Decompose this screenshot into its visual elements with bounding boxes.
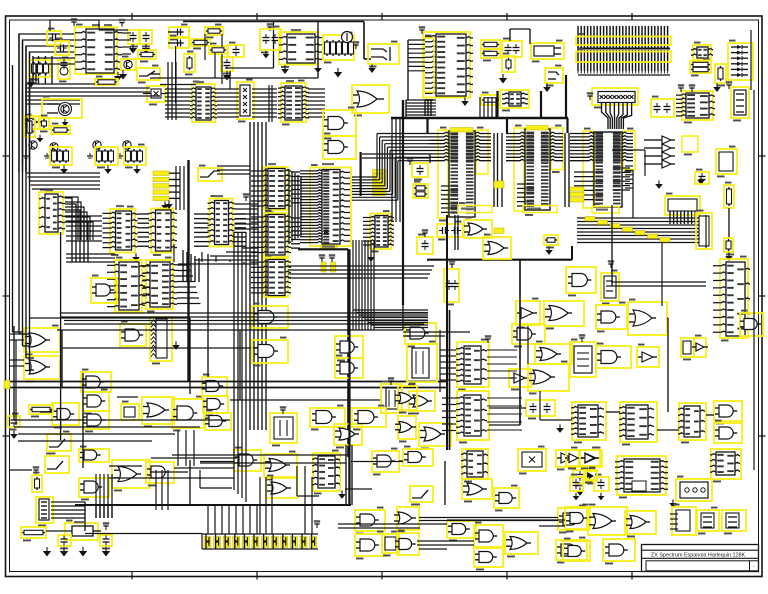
RC cluster under xtal: [323, 35, 354, 60]
capacitor C7: [228, 45, 244, 57]
U44 left feeds: [440, 349, 456, 351]
VCC U1 right: [121, 23, 123, 27]
gate U29C: [202, 377, 227, 396]
RAM B top label: [526, 126, 548, 131]
top-left extra wires: [99, 29, 128, 31]
transistor Q1 block: [121, 59, 136, 70]
caps B1: [695, 172, 709, 184]
gate U59B: [264, 454, 297, 477]
gnd bar Q3: [25, 153, 27, 156]
gate U51: [740, 313, 763, 336]
gate U34E: [409, 391, 435, 411]
resistor R4: [138, 50, 156, 59]
ROM C left pins group2: [574, 171, 594, 173]
PS2 connector J10: [676, 479, 712, 501]
bus lane right: [577, 217, 700, 219]
resistor network R20: [481, 40, 500, 49]
caps W: [570, 477, 583, 491]
gate links bottom center: [345, 488, 372, 490]
verticals x392-400: [391, 118, 393, 222]
bottom mid horizontals2: [338, 523, 447, 525]
comp DC12V: [502, 56, 515, 72]
connector J4: [731, 87, 749, 118]
diode W: [584, 470, 597, 480]
IC U9: [682, 91, 713, 120]
wire top bus: [168, 31, 183, 33]
yellow B1 out: [682, 136, 698, 152]
J6 fan pins: [669, 211, 671, 224]
wires under U6: [406, 99, 436, 101]
gnd bar Q5: [89, 153, 91, 156]
gate U27A: [81, 372, 111, 392]
IC U17 latch: [370, 214, 391, 250]
ground RP4: [175, 341, 177, 345]
caps inline C31: [526, 400, 555, 416]
gate U34C: [352, 408, 386, 427]
res pair R40: [413, 184, 428, 198]
bottom center risers: [259, 477, 261, 534]
gate U34B: [334, 424, 362, 445]
IC U2 voltage reg: [279, 32, 318, 65]
edge connector yellow band row2: [576, 52, 671, 63]
thick corner bus: [298, 248, 348, 250]
comp U25c: [601, 273, 619, 301]
thick divider: [75, 504, 351, 506]
res pair R22: [690, 61, 711, 73]
trunk x349: [348, 249, 350, 505]
IC U44 shift: [457, 342, 489, 387]
res inline R50: [29, 405, 53, 414]
capacitor C6 pair: [169, 27, 189, 37]
transistor Q3: [29, 141, 37, 149]
bus wires RAM row: [165, 88, 190, 90]
J8 wires: [51, 501, 85, 503]
right top area wires: [644, 150, 646, 176]
gate U69A: [558, 508, 587, 530]
switch DIP B: [45, 456, 69, 473]
bus trunk vertical mid: [268, 85, 270, 122]
bottom mid extra verticals: [304, 466, 306, 534]
IC U4 RAM: [281, 83, 306, 122]
cap C41: [100, 535, 112, 546]
xtal module X1: [570, 342, 596, 377]
gate U47: [628, 302, 667, 335]
ground comp: [548, 246, 550, 250]
IC U45 shift: [457, 391, 489, 440]
VCC U1 left: [73, 22, 75, 26]
verticals risers mid-bottom: [177, 430, 179, 466]
VCC tag mid RAM: [494, 181, 504, 188]
RAM B bottom label: [523, 206, 557, 213]
comp small right: [544, 235, 558, 245]
gate U34D: [419, 423, 451, 446]
buffer V2: [580, 450, 602, 467]
resistor R32: [51, 126, 70, 134]
right column verticals: [753, 90, 755, 470]
gate U67B: [474, 525, 503, 547]
double bus horizontal: [10, 381, 447, 383]
connector J11: [672, 507, 696, 535]
VCC C20: [409, 161, 411, 165]
buffer V1: [556, 450, 579, 467]
vert bundle x175-205: [175, 166, 177, 210]
IC U12: [151, 209, 174, 253]
ground C4: [132, 44, 134, 48]
wires DRAM to gates: [454, 215, 456, 250]
gnd Q2: [64, 119, 66, 122]
gate U62B: [355, 534, 385, 556]
bus jumpers: [585, 217, 595, 222]
long wires left field: [62, 347, 265, 349]
jack J3: [545, 68, 563, 83]
IC U52: [572, 402, 606, 440]
long vert x60: [60, 232, 62, 440]
transistor Q5: [93, 141, 101, 149]
wire keyboard risers: [95, 505, 97, 518]
gate U74B: [603, 539, 635, 561]
VCC U6: [421, 30, 423, 34]
VCC C20b: [424, 233, 426, 237]
resistor pack R1-R3: [29, 60, 50, 77]
comp U62C: [382, 534, 399, 553]
U45 left feeds: [442, 397, 456, 399]
border zone ticks: [131, 13, 133, 20]
resistor R18: [209, 46, 227, 54]
gate U74A: [563, 541, 590, 561]
caps row C21: [437, 224, 463, 237]
keyboard connector J8: [36, 497, 53, 523]
misc wire A: [362, 153, 430, 155]
resistor pack RP2: [237, 82, 254, 119]
VCC reg: [105, 526, 107, 530]
left risers to OR gates: [15, 340, 17, 425]
gate U26B: [24, 356, 60, 379]
gnd bar Q4: [46, 153, 48, 156]
VCC mid: [269, 27, 271, 31]
ROM IC C: [583, 131, 593, 208]
gate U73A: [565, 507, 590, 529]
respack RP4: [150, 317, 172, 361]
ground U11: [135, 253, 137, 257]
transistor Q6: [123, 141, 131, 149]
VCC U9b: [691, 88, 693, 92]
gate U61: [372, 451, 399, 472]
jack J1: [368, 44, 399, 64]
connector J13: [722, 510, 746, 531]
resistor R42: [724, 238, 733, 252]
right mid vertical: [661, 242, 663, 306]
ground U1: [117, 72, 119, 76]
IC U11: [110, 209, 135, 253]
VCC U33: [390, 381, 392, 385]
long wire bus A: [18, 34, 20, 334]
gate U70A: [397, 507, 419, 530]
gate U31B: [252, 340, 288, 363]
IC U11b: [115, 260, 142, 312]
RAM A top label: [450, 128, 473, 133]
main trunk vertical: [187, 160, 189, 382]
IC U71 sound: [617, 456, 666, 495]
gate U59A: [234, 450, 261, 471]
gate U69B: [556, 540, 587, 560]
IC U13: [210, 199, 233, 247]
ground U60: [341, 490, 343, 494]
Z80 bottom label: [320, 245, 337, 249]
bottom bundle x234-250: [233, 232, 235, 490]
ground C5: [145, 44, 147, 48]
keyboard row wires left of U11: [66, 215, 102, 217]
edge connector CON1 row2: [577, 50, 579, 71]
IC U25: [720, 259, 748, 338]
ground U6: [464, 97, 466, 101]
cap C20b: [417, 237, 433, 254]
IC U66 col: [462, 449, 488, 479]
ground RC: [337, 68, 339, 72]
caps W2: [594, 477, 609, 491]
thick feed to RAM bus: [565, 75, 567, 118]
power jack J2: [531, 43, 564, 59]
yellow pin strip U6: [424, 38, 434, 92]
U6 fan left wires: [408, 39, 425, 41]
capacitor C4: [128, 30, 139, 44]
trunk right of Z80: [360, 152, 362, 196]
cap C40: [58, 535, 71, 546]
risers gates bottom-left: [95, 474, 97, 518]
FF U33: [381, 384, 402, 413]
cap C20: [412, 163, 428, 177]
resistor R16: [205, 27, 223, 35]
gate U67A: [447, 521, 476, 538]
gate U42: [528, 364, 569, 391]
wires right band: [612, 281, 706, 283]
top center wire y78: [150, 77, 318, 79]
VCC U25c: [610, 264, 612, 268]
gate U5B: [323, 110, 356, 136]
wires bottom mid: [419, 517, 558, 519]
VCC left: [35, 470, 37, 474]
res cluster RGB2: [95, 147, 118, 165]
left column gates feeds: [10, 333, 24, 335]
ground C31: [559, 424, 561, 428]
ground DC: [502, 74, 504, 78]
gate U38: [405, 323, 436, 344]
FF U39: [407, 344, 437, 382]
wire net mid page: [402, 305, 404, 330]
gate U56A: [79, 449, 109, 462]
cap pair C9: [260, 29, 281, 50]
ground J1: [371, 64, 373, 68]
gate U48: [596, 346, 631, 368]
regulator REG1: [65, 523, 98, 540]
RAM IC B: [514, 128, 524, 211]
ground C9: [265, 51, 267, 54]
gate U27C: [83, 411, 109, 429]
small gate bottom-left: [24, 116, 40, 129]
Model connector J6: [665, 196, 700, 215]
wires right field: [606, 411, 620, 413]
gate U62A: [355, 510, 385, 531]
comp DC conn: [481, 95, 500, 105]
capacitor C2: [55, 41, 69, 55]
resistor R41: [724, 185, 734, 208]
gate U73B big: [588, 507, 627, 535]
gate U58: [146, 462, 174, 483]
VCC X1: [581, 338, 583, 342]
IC U10: [39, 192, 63, 234]
wires U10 to U11: [65, 198, 72, 262]
capacitor C5: [140, 30, 152, 44]
gnd bar Q6: [119, 153, 121, 156]
gate U65: [494, 488, 519, 508]
gate U32B: [335, 358, 363, 378]
gate U64: [462, 479, 492, 499]
wires reg: [46, 530, 72, 532]
gate U36: [544, 301, 584, 326]
gate area connectors: [200, 487, 232, 489]
gate U56B: [79, 478, 109, 497]
IC U54: [679, 403, 706, 440]
gate U57 big: [112, 460, 150, 488]
ROM tags: [570, 187, 584, 191]
IC U15 buffer: [264, 213, 288, 257]
IC U53: [620, 402, 657, 442]
ground Q1: [122, 70, 124, 74]
gate pair U50: [681, 338, 694, 357]
trunk x403: [402, 113, 404, 305]
wire mesh around U44/U45: [487, 349, 517, 351]
resistor R31: [39, 118, 49, 129]
IC U14 buffer: [264, 167, 288, 210]
staircase extra lines TL: [33, 58, 75, 84]
transistor Q2 circle block: [42, 99, 82, 118]
connector J12: [697, 510, 719, 531]
IC U7 regulator: [500, 90, 529, 108]
gate U31A: [252, 306, 288, 328]
VCC RP3: [589, 96, 591, 100]
gate U26A: [24, 328, 60, 352]
diode V: [586, 471, 597, 481]
DRAM feed from top: [424, 100, 426, 116]
IC U15b buffer: [264, 258, 288, 297]
fan from U12b: [177, 264, 190, 266]
caps V: [573, 470, 588, 483]
band y455-470 wires: [172, 454, 348, 456]
IC U72: [711, 449, 741, 479]
U10 to U11 wire mesh: [65, 197, 78, 240]
resistor R5: [95, 79, 118, 85]
trunk double mid: [446, 215, 448, 450]
SW3: [410, 486, 433, 502]
gate U55B: [714, 423, 742, 443]
thick under-RAM bus: [427, 259, 572, 261]
right mid extra: [705, 215, 707, 248]
buffer row B1: [662, 136, 671, 144]
feed U52-U54 row: [540, 419, 572, 421]
gate U43B: [398, 416, 416, 439]
title block cells: [646, 561, 750, 571]
gate U59C: [266, 478, 297, 498]
VCC U44: [487, 339, 489, 343]
address lines Z80 to RAM staircase: [377, 133, 429, 135]
resistor R17: [191, 39, 210, 46]
crystal X2: [147, 86, 165, 102]
ladder left feed: [201, 534, 203, 549]
xtal circle: [342, 32, 353, 43]
bottom long wires: [109, 465, 142, 467]
VCC bundle: [245, 197, 247, 201]
bus tags right of Z80: [373, 170, 387, 174]
address fan verticals: [352, 240, 354, 330]
ground R41: [728, 252, 730, 256]
resistor R19: [184, 54, 195, 72]
Z80 CPU U16: [310, 168, 351, 247]
transistor Q4: [50, 143, 58, 151]
long cross wires mid: [60, 312, 428, 314]
wires caps to RAM row: [221, 54, 223, 84]
ground U17: [370, 253, 372, 257]
gate U23A: [464, 220, 492, 238]
resistor R21: [481, 49, 500, 58]
bundle left of U3: [167, 62, 169, 120]
misc wire C: [429, 154, 431, 163]
VCC D10: [282, 410, 284, 414]
edge connector yellow band row1: [576, 37, 671, 46]
gate U12c: [91, 278, 117, 303]
gate U70B: [397, 533, 419, 555]
VCC C20c: [451, 264, 453, 268]
fan U12b to U13 upper: [173, 244, 175, 262]
gate U63: [403, 449, 433, 466]
KB label tags: [153, 171, 169, 176]
ground C8: [226, 71, 228, 75]
RP3 fan wires: [602, 103, 609, 130]
bundle right of U13: [235, 203, 259, 205]
resistor R23: [715, 64, 726, 83]
gate U68: [505, 532, 538, 554]
ground KB: [164, 201, 166, 205]
Z80 left pin feed wires: [291, 171, 300, 173]
cap C30: [8, 416, 20, 427]
gate U29B: [172, 399, 204, 428]
switch SW2: [198, 168, 222, 181]
ground video: [39, 135, 41, 138]
long vert x83: [82, 373, 84, 468]
wire fan upper bundle: [257, 243, 259, 245]
gate U29E: [205, 413, 231, 430]
cap pair C20c: [444, 269, 459, 302]
bottom-left long wires: [14, 419, 230, 421]
gate U28: [52, 403, 79, 425]
xtal box X2: [518, 449, 546, 471]
capacitor C1: [47, 31, 61, 45]
buffer W2: [580, 450, 600, 466]
gnd B1a: [658, 180, 660, 184]
VCC bars: [321, 258, 323, 262]
ground RGB3: [136, 165, 138, 169]
gate U25b: [566, 267, 596, 293]
ground J3: [546, 83, 548, 87]
buffer U41: [509, 369, 531, 387]
gate U23B: [483, 237, 511, 259]
bus wires keyboard ICs: [138, 213, 150, 215]
switch DIP A: [47, 434, 71, 451]
RAM interconnect verticals: [493, 133, 495, 207]
left inner vertical wire: [12, 65, 14, 332]
svg-text:~: ~: [753, 565, 755, 569]
IC U12b: [146, 260, 173, 309]
IC U1: [75, 27, 117, 74]
wire trunk left: [32, 56, 34, 84]
